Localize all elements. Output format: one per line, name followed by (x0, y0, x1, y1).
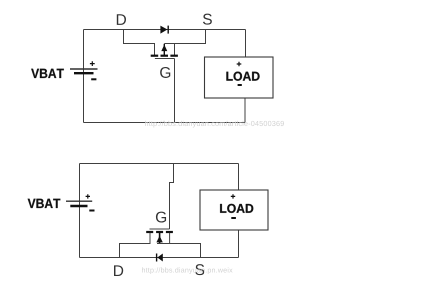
transistor Q2 body arrow (156, 232, 162, 243)
wire gate from rail (Q2, with jog) (170, 164, 174, 230)
transistor Q2 (MOSFET, plates) (146, 231, 173, 233)
wire top rail (bottom circuit) (80, 163, 239, 165)
body diode D1 (on D-S rail, anode left) (160, 26, 168, 34)
watermark (top) (145, 121, 284, 128)
wire source drop (S to Q1 body) (164, 30, 205, 44)
label - (bottom load) (231, 217, 236, 219)
label LOAD (top) (226, 72, 259, 81)
node G label (top) (160, 67, 170, 78)
wire drain drop (D to Q1) (124, 30, 155, 56)
label + (top load) (237, 62, 242, 67)
label + (bottom load) (231, 194, 235, 198)
transistor Q1 body arrow (161, 44, 167, 56)
battery VBAT (top cell) (70, 61, 98, 79)
watermark (bottom) (142, 267, 233, 274)
wire gate to bottom rail (Q1) (174, 59, 176, 123)
wire bottom rail (bottom circuit D-S rail) (80, 257, 239, 259)
transistor Q2 gate line (150, 228, 170, 230)
wire load bottom drop (bottom circuit) (238, 230, 240, 258)
label VBAT (top battery) (31, 69, 64, 78)
wire source terminal (Q1) (174, 44, 176, 56)
load box LOAD (top) (205, 57, 274, 98)
node G label (bottom) (156, 212, 166, 223)
wire battery vertical (bottom circuit) (79, 164, 81, 258)
wire load top drop (245, 30, 247, 58)
transistor Q1 (MOSFET, plates) (151, 55, 178, 57)
body diode D2 (on bottom rail, cathode left) (157, 254, 163, 262)
wire load bottom drop (244, 98, 246, 123)
node D label (bottom) (114, 265, 123, 276)
label VBAT (bottom battery) (28, 199, 61, 208)
wire bottom rail (return net) (84, 122, 246, 124)
wire source drop (Q2 body to S) (157, 244, 201, 258)
label LOAD (bottom) (220, 204, 253, 213)
node S label (bottom) (195, 264, 204, 275)
transistor Q1 gate line (155, 58, 175, 60)
wire drain drop (Q2 to D) (120, 233, 151, 258)
wire source terminal (Q2) (169, 233, 171, 244)
load box LOAD (bottom) (200, 190, 268, 230)
wire load top drop (bottom circuit) (238, 164, 240, 191)
battery VBAT (bottom cell) (66, 194, 95, 210)
node D label (top) (117, 14, 126, 25)
wire top rail (VBAT+ to load, net D/S rail) (84, 29, 246, 31)
wire battery vertical (83, 30, 85, 123)
node S label (top) (203, 14, 212, 25)
label - (top load) (238, 84, 242, 86)
